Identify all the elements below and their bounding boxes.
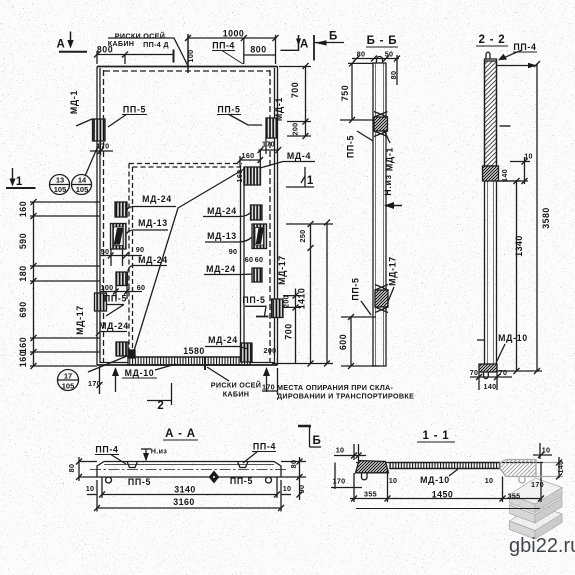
section mark A top-right (281, 35, 302, 51)
B-B top dim (352, 58, 399, 60)
2-2 bar (485, 59, 497, 371)
leader MD-13 L (127, 230, 169, 234)
leader PP-5 L lower (106, 305, 124, 317)
cut mark 2 bottom (147, 383, 172, 405)
SECTION 2-2 (470, 50, 542, 390)
leader riski bottom (207, 367, 229, 381)
2-2 inner lines (487, 181, 489, 371)
embed MD-13 left (111, 224, 127, 250)
leader polyline MD-4 to corner (133, 169, 244, 354)
B-B bar (373, 63, 386, 366)
inner dashed contour (104, 70, 271, 362)
leader MD-1 left top (76, 119, 92, 126)
right vert dim 1410 outer (324, 220, 330, 367)
leader MD-24 R1 (203, 213, 250, 217)
leader MD-24 R3 (205, 347, 248, 350)
2-2 MD-10 leader (496, 344, 505, 363)
leader MD-10 (155, 364, 176, 370)
circle 17 (57, 370, 79, 391)
1-1 left end block (356, 461, 389, 473)
SECTION A-A (76, 426, 321, 512)
cut mark 1 left (6, 168, 36, 188)
right vert dim 250 mid (272, 221, 333, 367)
A-A side dim 80 left (79, 461, 97, 463)
plate bottom (510, 505, 563, 540)
section mark B right of A-A (298, 426, 321, 447)
embed MD-24 right bottom (241, 343, 253, 362)
2-2 dim 1340 (516, 181, 518, 371)
embed MD-24 right 2 (252, 268, 262, 282)
corner block bottom-left of opening (128, 350, 135, 358)
leader MD-24 R2 (204, 273, 252, 276)
2-2 bottom dims (470, 376, 512, 378)
2-2 PP-4 leader (502, 50, 522, 59)
dim 170 left edge (90, 141, 113, 155)
opening bottom / strip MD-10 (128, 357, 250, 365)
1-1 right end block (500, 460, 536, 484)
embed MD-24 left 1 (115, 202, 127, 217)
dim line 200 right top (244, 54, 276, 56)
watermark logo stacked plates (510, 478, 563, 539)
2-2 embed (483, 166, 499, 181)
leader MD-4 label (260, 162, 283, 169)
B-B embed 1 with chamfer notches (374, 117, 388, 131)
1-1 thin slab (356, 462, 543, 464)
dim 170 right edge (258, 138, 281, 154)
2-2 diagonal hatch upper (485, 61, 497, 166)
2-2 top hook (486, 52, 490, 59)
embed MD-24 left bottom (116, 342, 128, 356)
support arrow left (112, 367, 119, 392)
B-B dim 750 (351, 63, 353, 120)
opening (cabin door) dashed top/left (129, 164, 242, 357)
circles 13 14 (50, 146, 99, 195)
leader MD-24 L2 (128, 266, 167, 272)
embed PP-5 left top (93, 119, 106, 141)
B-B niz arrow (384, 202, 402, 209)
risk tick bottom (204, 357, 206, 370)
embed PP-5 left lower (95, 293, 107, 311)
support arrow right (263, 367, 270, 392)
embed MD-13 right (252, 224, 267, 249)
1-1 dims right (533, 454, 552, 456)
dims 50/90 left MD-13 (100, 249, 142, 266)
risk axis tick top (187, 34, 189, 73)
SECTION 1-1 (331, 443, 563, 509)
A-A loops (106, 477, 112, 483)
section mark A top-left (59, 32, 87, 52)
section mark B top (314, 35, 344, 61)
A-A dovetail notches PP-4 (127, 462, 138, 468)
dim 160 over MD-4 (238, 150, 264, 167)
A-A dim 3160 (97, 507, 281, 509)
leader PP-5 left top (108, 114, 127, 127)
B-B embed 2 with chamfer notches (375, 290, 388, 307)
dim 170 bottom left + leader circle 17 (88, 356, 127, 372)
2-2 dim 10/140 (524, 157, 526, 184)
leader PP-5 right top (228, 114, 262, 125)
leader MD-24 L3 (96, 332, 127, 337)
opening right edge (240, 165, 242, 356)
leader MD-13 R (205, 237, 252, 242)
1-1 dims left (334, 455, 366, 457)
2-2 dim 3580 (536, 64, 538, 371)
dim 170 bottom right (262, 390, 278, 392)
top dim line 1000 (185, 35, 279, 64)
A-A niz arrow (141, 449, 151, 462)
leader PP-5 R flag (245, 306, 266, 316)
A-A dim 3140 (102, 494, 277, 496)
A-A centerline (90, 469, 288, 471)
plate top (510, 478, 563, 513)
embed PP-5 right lower (272, 299, 284, 318)
A-A bar (97, 462, 281, 478)
embed MD-24 left 2 (116, 272, 128, 286)
panel outline main view (97, 67, 278, 366)
cut mark 1 right (286, 167, 314, 187)
embed MD-1 right top (266, 118, 277, 138)
2-2 mid tick (500, 125, 511, 127)
right vert dim 200/700 short (283, 289, 301, 364)
left dim chain (30, 199, 100, 369)
A-A side dims right (281, 461, 306, 463)
A-A diamond (210, 472, 219, 483)
embed MD-24 right 1 (251, 205, 263, 220)
right top vert dim 700/200 (279, 63, 311, 139)
B-B dim 600 (350, 317, 352, 366)
top dim line 800 left (94, 50, 174, 65)
SECTION B-B (340, 55, 402, 369)
embed MD-4 top right of opening (244, 167, 261, 185)
1-1 dim 1450/355 (350, 498, 541, 500)
2-2 foot (479, 364, 497, 372)
B-B leaders (357, 131, 373, 141)
A-A leaders PP-4 (110, 454, 126, 464)
B-B top hook (377, 57, 383, 64)
plate middle (510, 489, 563, 524)
1-1 MD-10 leader (449, 469, 458, 476)
dims 100/60 left (100, 286, 142, 299)
leader riski osei top (108, 38, 188, 66)
leader MD-24 L1 (127, 207, 176, 211)
